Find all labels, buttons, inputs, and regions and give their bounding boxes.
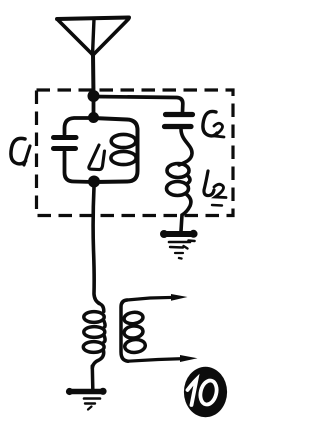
ground right [160, 230, 198, 259]
antenna [57, 18, 129, 56]
inductor L1 loops [111, 134, 136, 164]
capacitor C2 plates [166, 112, 193, 117]
figure number badge 10 [184, 367, 227, 417]
transformer primary coil [83, 304, 105, 369]
label L2 [204, 171, 226, 206]
wire secondary bottom with arrow [128, 359, 184, 362]
node B junction dot [88, 112, 99, 123]
node A junction dot [88, 90, 100, 102]
label C2 [203, 111, 224, 137]
dashed box [37, 90, 234, 216]
wire primary to ground [91, 366, 95, 389]
wire node A to C2 [94, 97, 183, 113]
capacitor C1 plates [54, 135, 77, 140]
tank circuit outline (C1 L1 loop) [65, 118, 138, 182]
wire node C down to transformer [93, 187, 99, 304]
inductor L2 loops [167, 164, 191, 196]
wire secondary top with arrow [127, 297, 176, 300]
label L1 [89, 145, 105, 170]
wire antenna mast [91, 54, 96, 96]
label C1 [11, 138, 30, 165]
transformer secondary coil [121, 300, 146, 361]
ground left [66, 388, 107, 410]
wire L2 to ground [181, 194, 191, 231]
node C junction dot [88, 176, 100, 188]
wire node A to node B [92, 96, 96, 118]
wire C2 to L2 [179, 129, 192, 165]
